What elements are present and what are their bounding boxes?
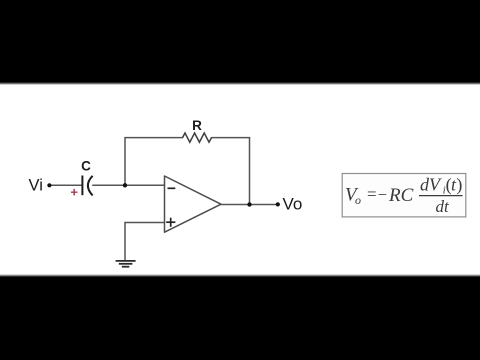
resistor R1 zigzag (183, 133, 212, 142)
wire input Vi to capacitor (52, 184, 82, 186)
top bar blur edge (0, 82, 480, 85)
svg-text:RC: RC (388, 185, 414, 206)
svg-text:): ) (456, 175, 462, 196)
svg-text:+: + (70, 185, 78, 200)
svg-text:Vo: Vo (283, 194, 303, 213)
svg-text:o: o (355, 193, 361, 207)
op-amp U1 triangle (165, 176, 222, 232)
wire feedback top right segment (212, 137, 250, 139)
node inverting junction dot (123, 183, 127, 187)
capacitor C1 straight plate (81, 176, 83, 196)
capacitor C1 curved plate (88, 176, 93, 196)
wire ground vertical (124, 223, 126, 261)
svg-text:R: R (192, 118, 202, 133)
formula Vo = -RC dVi(t)/dt (345, 175, 463, 216)
white video frame band (0, 83, 480, 275)
ground (116, 261, 136, 267)
formula box (342, 174, 466, 217)
svg-text:Vi: Vi (29, 176, 43, 194)
node output terminal dot (276, 202, 280, 206)
node feedback output junction dot (247, 202, 251, 206)
bottom bar blur edge (0, 274, 480, 277)
wire non-inverting input horizontal (125, 222, 165, 224)
svg-text:=: = (367, 185, 377, 204)
svg-text:−: − (378, 185, 387, 204)
op-amp inverting input minus sign (168, 187, 176, 189)
svg-text:C: C (81, 158, 91, 173)
node input terminal dot (47, 183, 51, 187)
wire feedback right vertical (249, 138, 251, 205)
svg-text:dt: dt (436, 197, 451, 216)
wire output (221, 204, 279, 206)
svg-text:dV: dV (420, 175, 442, 195)
wire capacitor to inverting node (93, 184, 165, 186)
wire feedback left vertical (124, 138, 126, 186)
op-amp non-inverting input plus sign (166, 221, 175, 223)
wire feedback top left segment (125, 137, 183, 139)
